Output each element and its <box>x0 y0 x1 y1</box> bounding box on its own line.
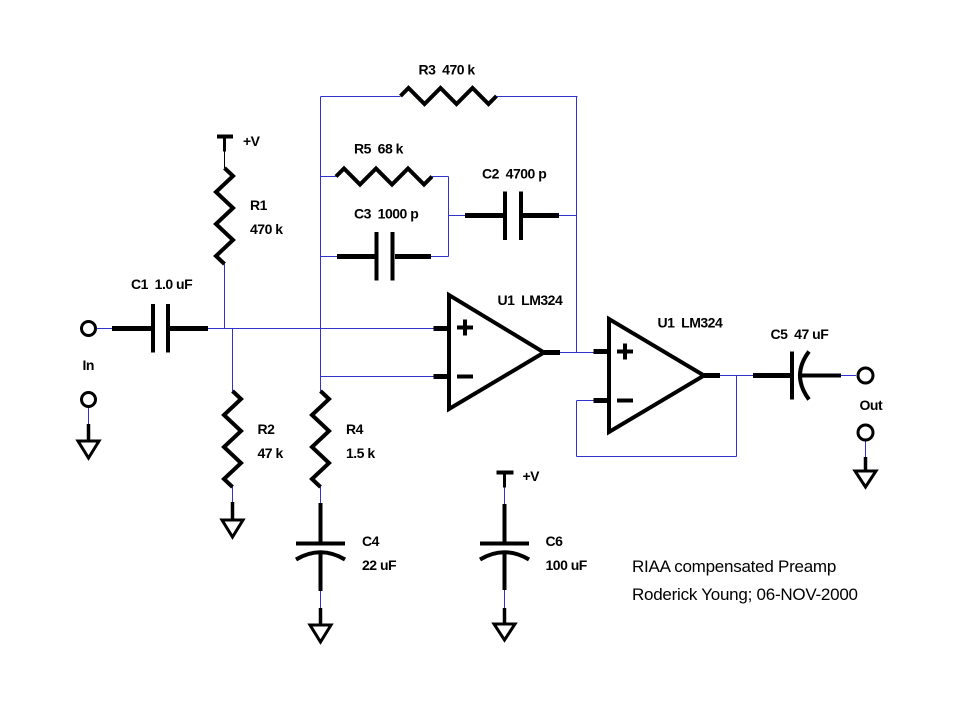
svg-text:47 k: 47 k <box>258 445 284 461</box>
svg-text:+V: +V <box>523 468 541 484</box>
svg-text:R2: R2 <box>258 421 276 437</box>
svg-text:C4: C4 <box>362 533 380 549</box>
svg-text:C2 4700 p: C2 4700 p <box>482 166 546 182</box>
svg-text:C1 1.0 uF: C1 1.0 uF <box>131 276 193 292</box>
svg-text:In: In <box>83 357 94 373</box>
svg-text:R1: R1 <box>250 197 268 213</box>
svg-text:Roderick Young; 06-NOV-2000: Roderick Young; 06-NOV-2000 <box>632 585 858 604</box>
svg-text:R4: R4 <box>346 421 364 437</box>
svg-text:100 uF: 100 uF <box>546 557 588 573</box>
svg-text:U1 LM324: U1 LM324 <box>498 292 563 308</box>
svg-text:C6: C6 <box>546 533 564 549</box>
svg-text:C5 47 uF: C5 47 uF <box>771 326 830 342</box>
svg-text:U1 LM324: U1 LM324 <box>658 315 723 331</box>
svg-text:Out: Out <box>860 397 883 413</box>
svg-text:R5 68 k: R5 68 k <box>354 141 404 157</box>
svg-text:1.5 k: 1.5 k <box>346 445 375 461</box>
svg-text:22 uF: 22 uF <box>362 557 397 573</box>
svg-text:+V: +V <box>243 133 261 149</box>
svg-text:470 k: 470 k <box>250 221 283 237</box>
svg-text:R3 470 k: R3 470 k <box>419 62 476 78</box>
svg-text:C3 1000 p: C3 1000 p <box>354 206 418 222</box>
svg-text:RIAA compensated Preamp: RIAA compensated Preamp <box>632 557 836 576</box>
